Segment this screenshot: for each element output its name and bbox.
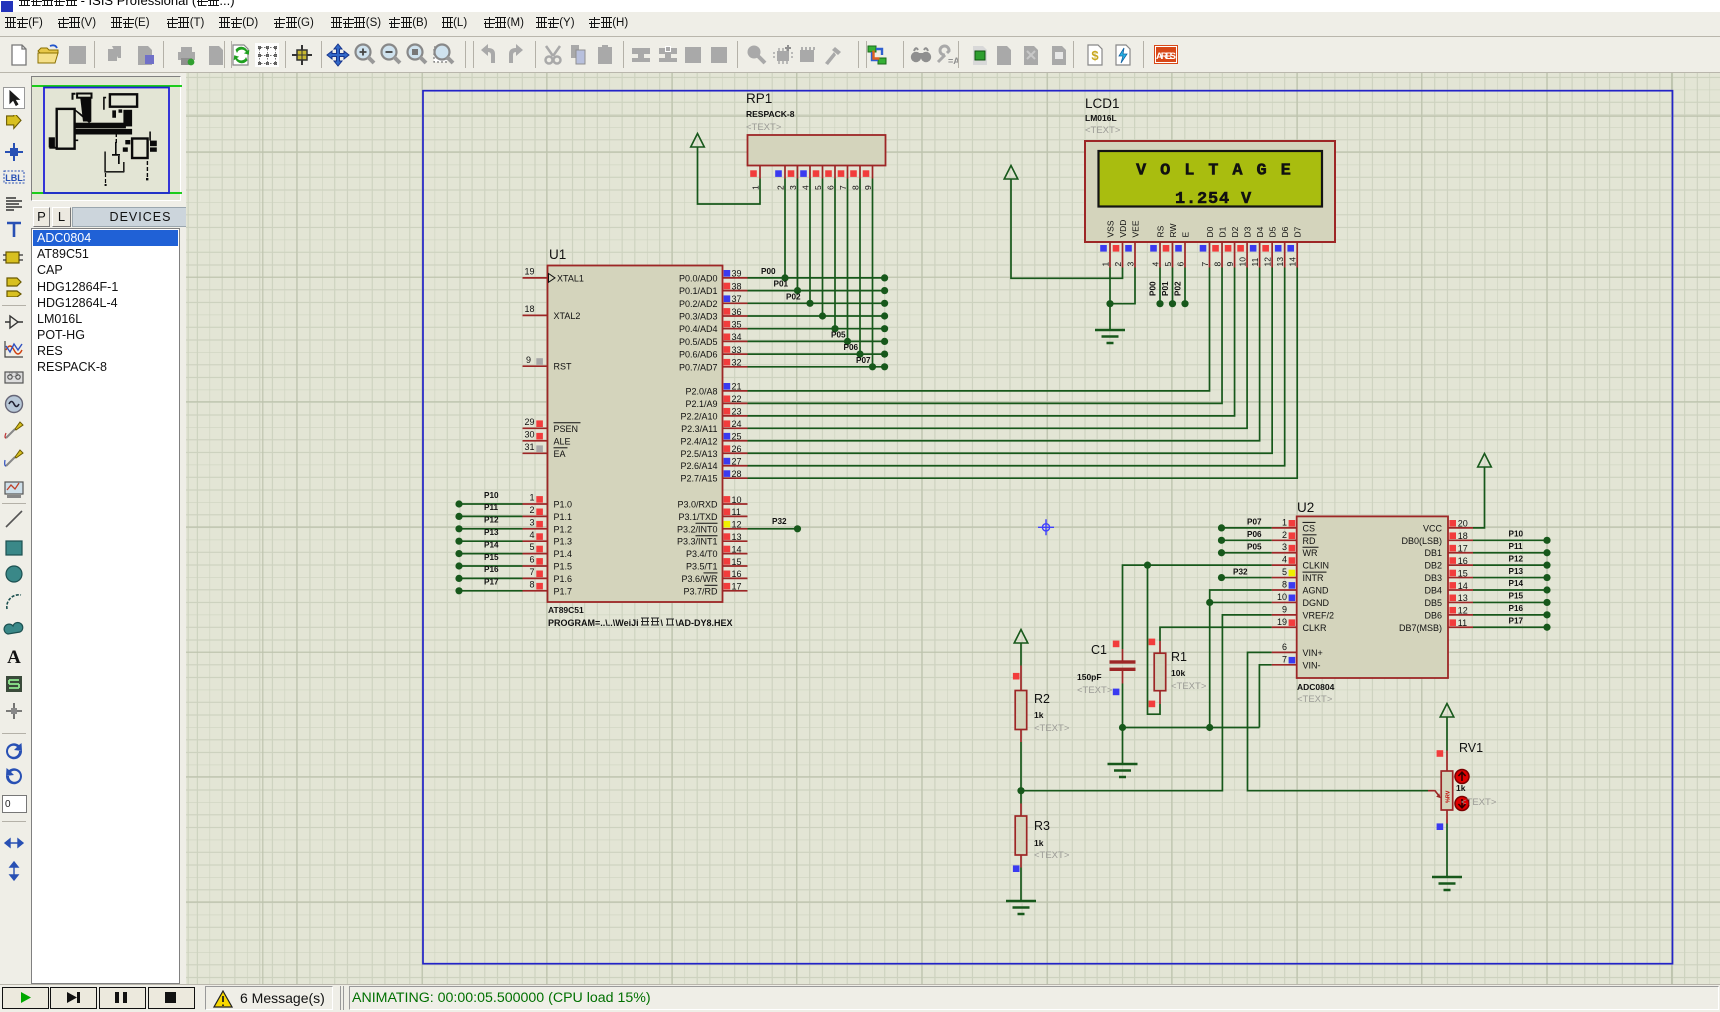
svg-text:XTAL2: XTAL2 <box>554 311 581 321</box>
svg-text:$: $ <box>1091 48 1099 63</box>
svg-text:P11: P11 <box>484 503 499 512</box>
svg-text:P1.2: P1.2 <box>554 524 573 534</box>
svg-text:D3: D3 <box>1243 226 1253 237</box>
RP1 pin 4 <box>809 166 811 179</box>
RP1 pin 7 <box>847 166 849 179</box>
wire RV1 to ground <box>1446 824 1448 877</box>
svg-text:R3: R3 <box>1034 819 1050 833</box>
wire P10 <box>459 503 523 505</box>
svg-text:P05: P05 <box>831 330 846 339</box>
U1 pin 30 ALE <box>523 440 548 442</box>
svg-text:DB4: DB4 <box>1424 586 1442 596</box>
svg-text:P0.5/AD5: P0.5/AD5 <box>679 337 718 347</box>
svg-text:P2.4/A12: P2.4/A12 <box>680 436 717 446</box>
U1 pin 31 EA <box>523 452 548 454</box>
U2 pin 19 CLKR <box>1272 626 1297 628</box>
svg-text:6: 6 <box>529 555 534 565</box>
svg-text:<TEXT>: <TEXT> <box>1034 850 1070 861</box>
svg-text:VCC: VCC <box>1423 523 1443 533</box>
svg-text:DB2: DB2 <box>1424 561 1442 571</box>
svg-text:LCD1: LCD1 <box>1085 96 1120 111</box>
resistor R3 1k <box>1020 804 1022 817</box>
U2 pin 14 DB4 <box>1448 589 1473 591</box>
U2 pin 12 DB6 <box>1448 614 1473 616</box>
U1 pin 9 RST <box>523 365 548 367</box>
svg-text:1: 1 <box>751 185 761 190</box>
svg-text:DB6: DB6 <box>1424 610 1442 620</box>
svg-text:1.254 V: 1.254 V <box>1175 190 1252 209</box>
svg-text:P2.5/A13: P2.5/A13 <box>680 449 717 459</box>
svg-text:P10: P10 <box>1509 530 1524 539</box>
svg-text:15: 15 <box>1458 568 1468 578</box>
wire power to R2 <box>1020 643 1022 666</box>
junction AGND/DGND <box>1206 599 1213 606</box>
svg-text:P3.2/INT0: P3.2/INT0 <box>677 524 718 534</box>
svg-text:7: 7 <box>529 567 534 577</box>
svg-text:9: 9 <box>1282 604 1287 614</box>
svg-text:P3.5/T1: P3.5/T1 <box>686 562 718 572</box>
svg-text:D1: D1 <box>1218 226 1228 237</box>
svg-text:19: 19 <box>1277 617 1287 627</box>
U1 pin 22 P2.1/A9 <box>723 402 748 404</box>
wire U2 DB5 <box>1473 601 1547 603</box>
svg-text:27: 27 <box>732 457 742 467</box>
U1 pin 39 P0.0/AD0 <box>723 277 748 279</box>
wire U2 VCC to power <box>1473 467 1485 528</box>
svg-text:E: E <box>1181 232 1191 238</box>
U1 pin 28 P2.7/A15 <box>723 477 748 479</box>
svg-text:33: 33 <box>732 345 742 355</box>
U1 P3 overlines <box>696 522 718 524</box>
svg-text:11: 11 <box>1250 257 1260 266</box>
svg-text:P2.0/A8: P2.0/A8 <box>685 386 717 396</box>
ground below RV1 <box>1432 877 1462 890</box>
svg-text:P3.7/RD: P3.7/RD <box>683 586 718 596</box>
junction P00 <box>781 274 788 281</box>
junction P04 <box>831 325 838 332</box>
svg-text:1k: 1k <box>1456 783 1466 793</box>
svg-text:7: 7 <box>1282 654 1287 664</box>
svg-text:18: 18 <box>1458 531 1468 541</box>
svg-text:P0.3/AD3: P0.3/AD3 <box>679 312 718 322</box>
svg-text:7: 7 <box>838 185 848 190</box>
wire P04 horizontal <box>748 328 885 330</box>
U2 pin 2 RD <box>1272 539 1297 541</box>
svg-text:\: \ <box>661 618 664 628</box>
wire U2 AGND <box>1210 590 1272 728</box>
svg-text:10: 10 <box>1277 592 1287 602</box>
svg-text:VIN+: VIN+ <box>1303 648 1323 658</box>
svg-text:16: 16 <box>1458 556 1468 566</box>
svg-text:P02: P02 <box>786 292 801 301</box>
wire RP1 pin4 vertical <box>809 179 811 304</box>
svg-text:WR: WR <box>1303 548 1318 558</box>
potentiometer RV1 1k <box>1446 751 1448 772</box>
svg-text:P17: P17 <box>1509 616 1524 625</box>
svg-text:1: 1 <box>1101 262 1111 267</box>
wire P00 horizontal <box>748 277 885 279</box>
svg-text:2: 2 <box>1113 262 1123 267</box>
wire ground rail <box>1123 727 1260 729</box>
svg-text:P14: P14 <box>1509 579 1524 588</box>
U2 pin 11 DB7(MSB) <box>1448 626 1473 628</box>
svg-text:P32: P32 <box>772 517 787 526</box>
svg-text:P2.2/A10: P2.2/A10 <box>680 411 717 421</box>
svg-text:P1.5: P1.5 <box>554 562 573 572</box>
devices list <box>31 228 180 984</box>
svg-text:1: 1 <box>1282 517 1287 527</box>
U2 pin 15 DB3 <box>1448 577 1473 579</box>
svg-text:DB3: DB3 <box>1424 573 1442 583</box>
wire U2 WR <box>1222 552 1272 554</box>
svg-text:6: 6 <box>1282 642 1287 652</box>
U2 pin 17 DB1 <box>1448 552 1473 554</box>
preview panel <box>30 73 186 204</box>
svg-text:32: 32 <box>732 358 742 368</box>
svg-text:15: 15 <box>732 557 742 567</box>
play button <box>2 987 49 1009</box>
svg-text:ADC0804: ADC0804 <box>1297 682 1335 692</box>
svg-text:ARES: ARES <box>1156 51 1176 62</box>
svg-text:1: 1 <box>529 493 534 503</box>
svg-text:2: 2 <box>529 505 534 515</box>
svg-text:D5: D5 <box>1268 226 1278 237</box>
svg-text:XTAL1: XTAL1 <box>557 273 584 283</box>
svg-text:17: 17 <box>732 582 742 592</box>
U1 pin 16 P3.6/WR <box>723 577 748 579</box>
U2 pin 6 VIN+ <box>1272 651 1297 653</box>
svg-text:PROGRAM=..\..\WeiJi: PROGRAM=..\..\WeiJi <box>548 618 639 628</box>
svg-text:31: 31 <box>524 442 534 452</box>
svg-text:30: 30 <box>524 429 534 439</box>
U1 pin 13 P3.3/INT1 <box>723 540 748 542</box>
wire P32 from U1 pin12 <box>748 528 798 530</box>
svg-text:9: 9 <box>1225 262 1235 267</box>
U1 pin 36 P0.3/AD3 <box>723 315 748 317</box>
wire R2 bottom to node <box>1020 742 1022 791</box>
svg-text:9: 9 <box>526 355 531 365</box>
svg-text:P0.1/AD1: P0.1/AD1 <box>679 286 718 296</box>
wire P2.0 to LCD D0 <box>748 268 1210 391</box>
svg-text:P0.2/AD2: P0.2/AD2 <box>679 299 718 309</box>
bottom bar <box>0 984 1720 1012</box>
svg-text:P16: P16 <box>1509 604 1524 613</box>
power terminal VCC U2 <box>1478 454 1492 468</box>
U2 pin 8 AGND <box>1272 589 1297 591</box>
svg-text:2: 2 <box>776 185 786 190</box>
svg-text:C1: C1 <box>1091 643 1107 657</box>
svg-text:3: 3 <box>1126 262 1136 267</box>
svg-text:<TEXT>: <TEXT> <box>1461 797 1497 808</box>
svg-text:P0.4/AD4: P0.4/AD4 <box>679 324 718 334</box>
RV1 wiper arrow <box>1428 791 1440 797</box>
junction AGND/groundrail <box>1206 724 1213 731</box>
wire LCD RS stub <box>1159 268 1161 304</box>
svg-text:P2.7/A15: P2.7/A15 <box>680 474 717 484</box>
svg-text:P3.1/TXD: P3.1/TXD <box>678 512 718 522</box>
svg-text:P1.3: P1.3 <box>554 537 573 547</box>
svg-text:P07: P07 <box>856 356 871 365</box>
svg-text:<TEXT>: <TEXT> <box>1171 681 1207 692</box>
svg-text:P3.4/T0: P3.4/T0 <box>686 549 718 559</box>
U2 pin 13 DB5 <box>1448 601 1473 603</box>
svg-text:25: 25 <box>732 432 742 442</box>
wire P02 horizontal <box>748 302 885 304</box>
wire P07 horizontal <box>748 366 885 368</box>
junction P06 <box>856 351 863 358</box>
svg-text:U2: U2 <box>1297 500 1314 515</box>
svg-text:36: 36 <box>732 307 742 317</box>
wire P2.2 to LCD D2 <box>748 268 1235 416</box>
svg-text:P0.6/AD6: P0.6/AD6 <box>679 350 718 360</box>
svg-text:P13: P13 <box>484 528 499 537</box>
wire node to R3 <box>1020 791 1022 804</box>
svg-text:37: 37 <box>732 294 742 304</box>
svg-text:1k: 1k <box>1034 710 1044 720</box>
svg-text:P10: P10 <box>484 491 499 500</box>
U1 pin 18 XTAL2 <box>523 314 548 316</box>
wire RP1 pin7 vertical <box>847 179 849 342</box>
svg-text:3: 3 <box>529 517 534 527</box>
U1 pin 27 P2.6/A14 <box>723 465 748 467</box>
svg-text:12: 12 <box>1458 606 1468 616</box>
svg-text:12: 12 <box>1263 257 1273 267</box>
svg-text:LBL: LBL <box>5 173 23 183</box>
U1 pin 11 P3.1/TXD <box>723 515 748 517</box>
svg-text:P11: P11 <box>1509 542 1524 551</box>
svg-text:1k: 1k <box>1034 838 1044 848</box>
wire P11 <box>459 515 523 517</box>
RP1 pin 6 <box>834 166 836 179</box>
svg-text:P17: P17 <box>484 578 499 587</box>
wire P06 horizontal <box>748 353 885 355</box>
svg-text:6: 6 <box>826 185 836 190</box>
svg-text:DGND: DGND <box>1303 598 1330 608</box>
wire U2 DB0 <box>1473 539 1547 541</box>
svg-text:3: 3 <box>1282 542 1287 552</box>
ADC U2 body (ADC0804) <box>1297 516 1448 678</box>
svg-text:ALE: ALE <box>554 436 571 446</box>
svg-text:4: 4 <box>1151 262 1161 267</box>
U2 pin 9 VREF/2 <box>1272 614 1297 616</box>
wire P2.4 to LCD D4 <box>748 268 1260 441</box>
svg-text:P01: P01 <box>774 280 789 289</box>
svg-text:<TEXT>: <TEXT> <box>1077 685 1113 696</box>
junction R2/R3/VREF2 <box>1017 787 1024 794</box>
U1 pin 3 P1.2 <box>523 528 548 530</box>
wire P2.5 to LCD D5 <box>748 268 1273 454</box>
svg-text:RP1: RP1 <box>746 91 772 106</box>
svg-text:21: 21 <box>732 382 742 392</box>
svg-text:D2: D2 <box>1230 226 1240 237</box>
wire P2.7 to LCD D7 <box>748 268 1298 479</box>
svg-text:P1.0: P1.0 <box>554 500 573 510</box>
U2 pin 18 DB0(LSB) <box>1448 539 1473 541</box>
U1 pin 37 P0.2/AD2 <box>723 302 748 304</box>
U1 pin 21 P2.0/A8 <box>723 390 748 392</box>
wire RP1 pin6 vertical <box>834 179 836 329</box>
U2 pin 10 DGND <box>1272 601 1297 603</box>
U1 pin 7 P1.6 <box>523 577 548 579</box>
svg-text:VDD: VDD <box>1118 220 1128 238</box>
svg-text:17: 17 <box>1458 544 1468 554</box>
svg-text:10k: 10k <box>1171 668 1185 678</box>
RP1 pin 5 <box>822 166 824 179</box>
resistor pack RP1 RESPACK-8 <box>748 135 886 166</box>
wire U2 DB4 <box>1473 589 1547 591</box>
svg-text:16: 16 <box>732 569 742 579</box>
svg-text:CLKR: CLKR <box>1303 623 1328 633</box>
wire LCD VEE <box>1110 268 1135 304</box>
svg-text:P15: P15 <box>484 553 499 562</box>
wire U2 DB2 <box>1473 564 1547 566</box>
power terminal VCC for RP1 <box>691 134 705 148</box>
svg-text:CS: CS <box>1303 523 1316 533</box>
wire U2 DB3 <box>1473 577 1547 579</box>
svg-text:13: 13 <box>1275 257 1285 267</box>
svg-text:14: 14 <box>1288 257 1298 267</box>
power terminal above R2 <box>1014 630 1028 644</box>
svg-text:DB7(MSB): DB7(MSB) <box>1399 623 1442 633</box>
wire U2 VREF/2 to divider <box>1021 615 1272 791</box>
U1 pin 32 P0.7/AD7 <box>723 366 748 368</box>
svg-text:P2.6/A14: P2.6/A14 <box>680 461 717 471</box>
wire P01 horizontal <box>748 290 885 292</box>
ground below C1 <box>1108 764 1138 777</box>
wire R1 bottom to CLKIN net <box>1148 565 1161 714</box>
U2 pin 3 WR <box>1272 552 1297 554</box>
U2 pin 16 DB2 <box>1448 564 1473 566</box>
sheet centre marker <box>1038 519 1054 535</box>
svg-text:P_B: P_B <box>9 372 19 378</box>
wire LCD E stub <box>1184 268 1186 304</box>
svg-text:RS: RS <box>1156 225 1166 237</box>
svg-text:4: 4 <box>529 530 534 540</box>
svg-text:EA: EA <box>554 449 566 459</box>
LCD screen <box>1099 151 1323 207</box>
svg-text:RD: RD <box>1303 536 1316 546</box>
svg-text:P06: P06 <box>1247 530 1262 539</box>
svg-text:22: 22 <box>732 394 742 404</box>
wire RP1 pin3 vertical <box>797 179 799 291</box>
RV1 decrement button <box>1455 797 1469 811</box>
wire LCD VSS to ground <box>1109 268 1111 330</box>
svg-text:P3.0/RXD: P3.0/RXD <box>677 500 718 510</box>
sheet border <box>423 91 1673 964</box>
pause button <box>99 987 146 1009</box>
svg-text:<TEXT>: <TEXT> <box>1297 694 1333 705</box>
wire P17 <box>459 590 523 592</box>
svg-text:D0: D0 <box>1205 226 1215 237</box>
svg-text:5: 5 <box>1163 262 1173 267</box>
U1 pin 23 P2.2/A10 <box>723 415 748 417</box>
toolbar <box>0 36 1720 73</box>
svg-text:P16: P16 <box>484 565 499 574</box>
wire power to RV1 <box>1446 717 1448 751</box>
svg-text:D7: D7 <box>1293 226 1303 237</box>
svg-text:CLKIN: CLKIN <box>1303 561 1330 571</box>
svg-text:P32: P32 <box>1233 567 1248 576</box>
wire RP1 pin9 vertical <box>872 179 874 367</box>
wire U2 VIN- to ground rail <box>1259 665 1271 728</box>
svg-text:P3.3/INT1: P3.3/INT1 <box>677 537 718 547</box>
svg-text:P01: P01 <box>1161 281 1170 296</box>
wire C1 bottom to ground <box>1122 684 1124 764</box>
wire U2 CS <box>1222 527 1272 529</box>
svg-text:R2: R2 <box>1034 692 1050 706</box>
U1 pin 15 P3.5/T1 <box>723 565 748 567</box>
svg-text:29: 29 <box>524 417 534 427</box>
svg-text:P2.3/A11: P2.3/A11 <box>681 424 717 434</box>
svg-text:14: 14 <box>1458 581 1468 591</box>
wire R3 to ground <box>1020 868 1022 901</box>
svg-text:D6: D6 <box>1280 226 1290 237</box>
svg-text:<TEXT>: <TEXT> <box>746 122 782 133</box>
junction P01 <box>794 287 801 294</box>
svg-text:6: 6 <box>1176 262 1186 267</box>
U2 pin 4 CLKIN <box>1272 564 1297 566</box>
op-amp U1 body (AT89C51) <box>548 266 723 603</box>
U2 pin 7 VIN- <box>1272 664 1297 666</box>
wire U2 RD <box>1222 539 1272 541</box>
svg-text:AT89C51: AT89C51 <box>548 605 584 615</box>
svg-text:18: 18 <box>524 304 534 314</box>
svg-text:INTR: INTR <box>1303 573 1324 583</box>
svg-text:5: 5 <box>1282 567 1287 577</box>
wire P15 <box>459 565 523 567</box>
RP1 pin 2 <box>784 166 786 179</box>
svg-text:10: 10 <box>732 495 742 505</box>
svg-text:2: 2 <box>1282 530 1287 540</box>
svg-text:4: 4 <box>801 185 811 190</box>
junction C1/ground rail <box>1119 724 1126 731</box>
U1 pin 14 P3.4/T0 <box>723 553 748 555</box>
wire U2 INTR <box>1222 577 1272 579</box>
svg-text:P0.7/AD7: P0.7/AD7 <box>679 362 718 372</box>
svg-text:VSS: VSS <box>1106 220 1116 237</box>
svg-text:P06: P06 <box>844 343 859 352</box>
svg-text:13: 13 <box>1458 593 1468 603</box>
U1 pin 26 P2.5/A13 <box>723 452 748 454</box>
LCD1 LM016L body <box>1085 141 1335 242</box>
svg-text:19: 19 <box>524 267 534 277</box>
U1 pin 34 P0.5/AD5 <box>723 340 748 342</box>
svg-text:34: 34 <box>732 332 742 342</box>
svg-text:P07: P07 <box>1247 518 1262 527</box>
stop button <box>148 987 195 1009</box>
wire P2.3 to LCD D3 <box>748 268 1248 429</box>
wire U2 DB1 <box>1473 552 1547 554</box>
svg-text:P05: P05 <box>1247 542 1262 551</box>
svg-text:5: 5 <box>529 542 534 552</box>
power terminal above RV1 <box>1440 704 1454 718</box>
U2 pin 1 CS <box>1272 527 1297 529</box>
U2 pin 5 INTR <box>1272 577 1297 579</box>
power terminal VDD LCD <box>1004 166 1018 180</box>
U1 pin 33 P0.6/AD6 <box>723 353 748 355</box>
svg-text:DB1: DB1 <box>1424 548 1442 558</box>
svg-text:<TEXT>: <TEXT> <box>1034 723 1070 734</box>
wire P03 horizontal <box>748 315 885 317</box>
svg-text:VEE: VEE <box>1131 220 1141 237</box>
step button <box>50 987 97 1009</box>
svg-text:11: 11 <box>732 507 741 517</box>
junction CLKIN/R1 <box>1144 562 1151 569</box>
svg-text:U1: U1 <box>549 247 566 262</box>
resistor R1 10k <box>1159 641 1161 653</box>
svg-text:8: 8 <box>851 185 861 190</box>
svg-text:\AD-DY8.HEX: \AD-DY8.HEX <box>676 618 733 628</box>
